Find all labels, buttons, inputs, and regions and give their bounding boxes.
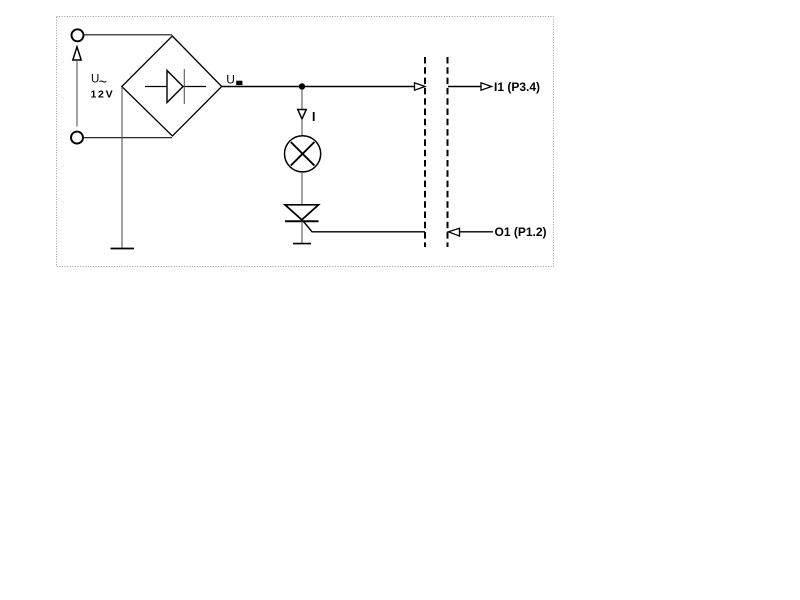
arrow into interface (right) <box>415 83 426 90</box>
label U= <box>226 73 242 87</box>
wire bridge output to node <box>222 86 415 88</box>
wire thyristor cathode down <box>301 222 303 244</box>
current arrow I (down) <box>298 110 306 120</box>
label I <box>313 112 315 121</box>
interface dashed line 2 <box>447 57 449 247</box>
interface dashed line 1 <box>424 57 426 247</box>
arrow to I1 label <box>481 83 492 90</box>
node junction <box>299 83 305 89</box>
wire interface to I1 arrow <box>448 86 481 88</box>
svg-text:12V: 12V <box>91 88 115 100</box>
gate wire to interface <box>304 222 426 232</box>
wire node down to current arrow <box>301 90 303 109</box>
ground <box>111 248 135 250</box>
svg-text:U: U <box>226 73 235 87</box>
bridge rectifier diamond <box>122 36 222 136</box>
svg-text:I1 (P3.4): I1 (P3.4) <box>494 80 540 94</box>
svg-text:~: ~ <box>99 73 107 89</box>
wire bridge left vertex down to ground <box>121 87 123 248</box>
voltage arrow U~ <box>73 47 81 127</box>
termination bar <box>293 243 311 245</box>
thyristor <box>285 205 319 221</box>
wire arrow to lamp <box>301 119 303 137</box>
terminal top input <box>72 29 84 41</box>
terminal bottom input <box>71 132 83 144</box>
svg-text:O1 (P1.2): O1 (P1.2) <box>495 225 547 239</box>
lamp <box>285 136 321 172</box>
wire O1 <box>460 231 494 233</box>
arrow from O1 into interface (left) <box>449 228 460 236</box>
diode inside bridge <box>145 69 206 104</box>
wire top terminal to bridge <box>83 34 172 36</box>
wire lamp to thyristor <box>301 172 303 204</box>
wire bottom terminal to bridge <box>83 137 172 139</box>
